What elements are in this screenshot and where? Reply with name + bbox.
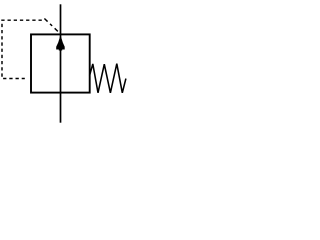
flow arrow (filled, pointing up): [56, 35, 64, 51]
spring: [90, 64, 126, 93]
pilot line diagonal (dashed): [44, 19, 60, 34]
pilot line (dashed): [2, 20, 42, 78]
pressure relief valve schematic symbol: [0, 0, 128, 128]
valve body box: [31, 34, 90, 92]
wire (main vertical flow line): [60, 4, 62, 122]
